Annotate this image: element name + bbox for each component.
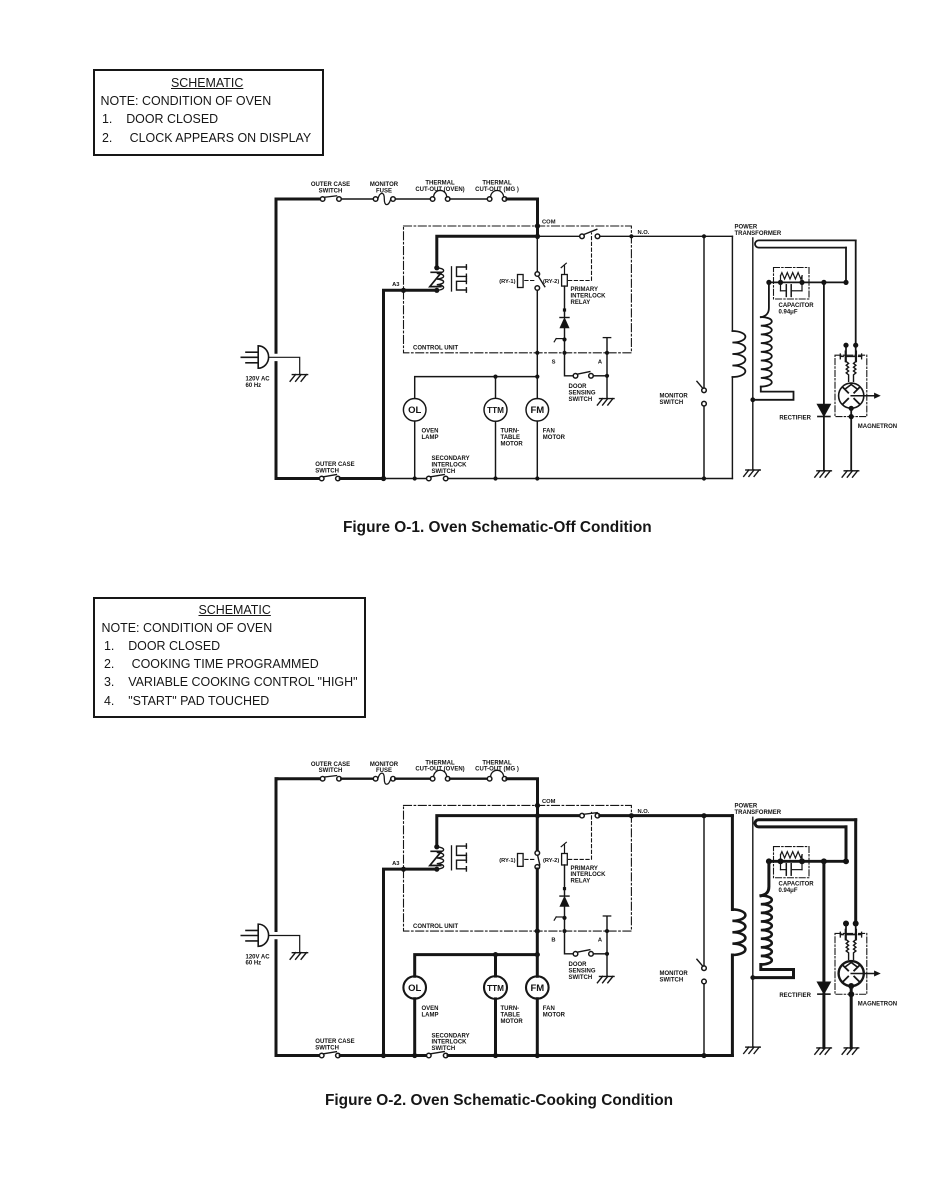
dashed link RY-2 coil to interlock switch [569, 233, 592, 281]
svg-text:LAMP: LAMP [422, 1013, 439, 1019]
wire filament lead right (to magnetron) [854, 820, 857, 922]
svg-text:DOOR: DOOR [569, 962, 588, 968]
label primary interlock relay [571, 287, 607, 306]
wire door sensing switch to node A column [593, 375, 607, 377]
svg-text:INTERLOCK: INTERLOCK [571, 872, 607, 878]
svg-text:B: B [551, 938, 555, 944]
magnetron filament terminals [840, 343, 861, 362]
label primary interlock relay [571, 866, 607, 885]
HV secondary return to ground lead [753, 387, 794, 400]
label power transformer [735, 804, 782, 816]
thermal cut-out (MG) [487, 197, 492, 202]
outer case switch (top) [320, 776, 341, 781]
control transformer T1 primary coil [434, 265, 443, 293]
svg-text:60 Hz: 60 Hz [246, 961, 262, 967]
label capacitor 0.94uF [779, 882, 815, 894]
wire S node to door sensing switch [565, 353, 574, 376]
wire S-B column to motor junction [536, 931, 539, 955]
node COM [535, 799, 556, 818]
svg-text:THERMAL: THERMAL [425, 760, 455, 766]
magnetron antenna output arrow [851, 393, 880, 398]
control unit dashed boundary box [404, 226, 632, 353]
oven lamp OL [403, 976, 426, 998]
svg-text:(RY-1): (RY-1) [499, 858, 515, 864]
fan motor FM [526, 955, 549, 999]
node dots on control unit boundary [535, 928, 609, 933]
wire COM to N.O. (primary interlock relay switch feed) [538, 814, 581, 817]
svg-text:A: A [598, 938, 603, 944]
schematic figure O-1 (off condition) [241, 181, 897, 482]
svg-text:MAGNETRON: MAGNETRON [858, 1002, 897, 1008]
svg-text:THERMAL: THERMAL [482, 181, 512, 187]
svg-text:MONITOR: MONITOR [660, 971, 689, 977]
bleed resistor inside capacitor [781, 852, 803, 862]
wire monitor switch column upper [703, 236, 705, 388]
label turntable motor [501, 429, 524, 448]
svg-text:SWITCH: SWITCH [315, 468, 339, 474]
connector pin at node S [554, 916, 566, 920]
node bottom rail at A3 column [381, 476, 386, 481]
AC plug 120V [241, 924, 268, 946]
secondary interlock switch [427, 1052, 449, 1058]
power transformer HV secondary coil [761, 317, 772, 387]
label monitor switch [660, 971, 689, 983]
svg-text:FAN: FAN [543, 429, 555, 435]
relay switch RY-2 contacts [535, 236, 545, 352]
wire bottom rail right segment [448, 1053, 732, 1058]
svg-text:TURN-: TURN- [501, 1006, 520, 1012]
label monitor fuse [370, 762, 399, 774]
wire rectifier to ground [823, 417, 825, 471]
wire rectifier to ground [822, 994, 825, 1048]
wire interlock switch to node N.O. [600, 814, 632, 817]
filament winding hairpin leads [755, 820, 856, 827]
rectifier diode [817, 982, 830, 994]
svg-text:LAMP: LAMP [422, 435, 439, 441]
svg-text:CAPACITOR: CAPACITOR [779, 882, 815, 888]
label outer case switch (bottom) [315, 462, 354, 474]
HV secondary return to ground lead [753, 965, 794, 978]
node COM [535, 220, 556, 239]
label fan motor [543, 1006, 566, 1018]
wire top rail segment 4 [450, 198, 487, 200]
svg-text:TABLE: TABLE [501, 435, 521, 441]
door sensing switch [573, 372, 593, 379]
ground at door sensing switch [597, 976, 614, 982]
svg-text:FUSE: FUSE [376, 768, 392, 774]
label thermal cut-out (MG) [475, 760, 519, 772]
svg-text:POWER: POWER [735, 804, 758, 810]
dashed link RY-1 to RY-2 switch [525, 858, 535, 860]
wire motor junction to TTM [494, 955, 497, 976]
wire COM to N.O. (primary interlock relay switch feed) [538, 235, 581, 237]
wire interlock switch to node N.O. [600, 235, 632, 237]
door sensing switch [573, 950, 593, 956]
motor supply wire [415, 375, 540, 399]
wire node A to ground [606, 376, 608, 399]
note box 1: schematic condition of oven (off) [93, 69, 324, 156]
svg-text:FM: FM [530, 405, 544, 416]
control transformer secondary windings [457, 844, 467, 871]
label thermal cut-out (oven) [415, 181, 464, 193]
power transformer primary return to rail [731, 377, 733, 479]
magnetron dashed box [835, 355, 867, 416]
wire motor junction to TTM [495, 377, 497, 399]
wire top rail segment 3 [395, 778, 430, 780]
ground at plug [290, 953, 308, 960]
wire OL to bottom rail [414, 421, 416, 478]
wire monitor switch to bottom rail [703, 406, 705, 479]
outer case switch (bottom) [319, 1052, 340, 1058]
wire left vertical from plug to top rail (thick) [276, 779, 277, 931]
svg-text:OL: OL [408, 405, 421, 416]
wire top rail segment 2 [341, 778, 373, 780]
wire A3 lead down to bottom rail (thick) [384, 869, 437, 1055]
primary interlock relay switch contacts [580, 229, 600, 238]
svg-text:60 Hz: 60 Hz [246, 383, 262, 389]
svg-text:MOTOR: MOTOR [543, 1013, 566, 1019]
wire bottom rail right segment [448, 476, 732, 480]
svg-text:SECONDARY: SECONDARY [432, 456, 470, 462]
note box 2: schematic condition of oven (cooking) [93, 597, 366, 718]
svg-text:RECTIFIER: RECTIFIER [779, 415, 811, 421]
label secondary interlock switch [432, 456, 470, 475]
svg-text:CONTROL UNIT: CONTROL UNIT [413, 924, 459, 930]
capacitor C1 0.94uF [781, 861, 803, 875]
control unit dashed boundary box [404, 805, 632, 931]
svg-text:SWITCH: SWITCH [660, 978, 684, 984]
power transformer primary coil [732, 331, 745, 377]
AC plug 120V [241, 346, 268, 368]
wire left vertical lower (thick) [275, 363, 278, 479]
label 120V AC 60 Hz [246, 376, 271, 389]
monitor switch [697, 959, 706, 983]
thermal cut-out (oven) [430, 776, 435, 781]
power transformer secondary ground lead [750, 238, 755, 470]
svg-text:0.94μF: 0.94μF [779, 888, 798, 894]
svg-text:OVEN: OVEN [422, 1006, 439, 1012]
svg-text:SWITCH: SWITCH [315, 1046, 339, 1052]
label thermal cut-out (MG) [475, 181, 519, 193]
monitor fuse [373, 776, 378, 781]
svg-text:CUT-OUT (MG ): CUT-OUT (MG ) [475, 187, 519, 193]
oven lamp OL [403, 399, 426, 422]
wire diode to connector node [564, 906, 566, 931]
label capacitor 0.94uF [779, 303, 815, 315]
wire bottom rail left segment (thick) [276, 477, 319, 480]
label secondary interlock switch [432, 1033, 470, 1052]
control transformer core [451, 267, 453, 291]
wire S node to door sensing switch [565, 931, 574, 954]
svg-text:MAGNETRON: MAGNETRON [858, 424, 897, 430]
wire door sensing switch to node A column [593, 953, 607, 955]
svg-text:RELAY: RELAY [571, 300, 591, 306]
control transformer secondary windings [457, 265, 467, 292]
wire top rail segment 2 [341, 198, 373, 200]
svg-text:A3: A3 [392, 861, 399, 867]
svg-text:OL: OL [408, 983, 421, 994]
svg-text:120V AC: 120V AC [246, 954, 271, 960]
svg-text:(RY-1): (RY-1) [499, 279, 515, 285]
magnetron filament heater coils [846, 362, 856, 382]
svg-text:CUT-OUT (OVEN): CUT-OUT (OVEN) [415, 767, 464, 773]
svg-text:A: A [598, 360, 603, 366]
wire bottom rail to A3 node (thick) [340, 477, 383, 480]
svg-text:TTM: TTM [487, 406, 504, 415]
turntable motor TTM [484, 398, 507, 421]
svg-text:INTERLOCK: INTERLOCK [432, 1040, 468, 1046]
magnetron dashed box [835, 933, 867, 994]
svg-text:DOOR: DOOR [569, 384, 588, 390]
svg-text:TRANSFORMER: TRANSFORMER [735, 231, 782, 237]
label oven lamp [422, 429, 439, 441]
svg-text:0.94μF: 0.94μF [779, 309, 798, 315]
rectifier diode [817, 404, 830, 416]
svg-text:MONITOR: MONITOR [660, 393, 689, 399]
label door sensing switch [569, 384, 596, 403]
wire top rail right segment to COM corner [507, 779, 538, 817]
svg-text:RELAY: RELAY [571, 879, 591, 885]
svg-text:SWITCH: SWITCH [569, 975, 593, 981]
svg-text:SECONDARY: SECONDARY [432, 1033, 470, 1039]
diode D1 in relay circuit [560, 896, 569, 906]
wire COM to control transformer primary (thick) [437, 816, 538, 846]
wire N.O. node to monitor switch column and transformer [631, 813, 732, 818]
capacitor dashed box [774, 268, 810, 300]
wire filament lead right (to magnetron) [855, 240, 857, 343]
wire filament lead left (through capacitor node) [845, 248, 847, 283]
svg-text:MONITOR: MONITOR [370, 762, 399, 768]
svg-text:MOTOR: MOTOR [501, 442, 524, 448]
wire FM to bottom rail [536, 421, 538, 478]
svg-text:COM: COM [542, 799, 556, 805]
svg-text:SWITCH: SWITCH [319, 768, 343, 774]
power transformer primary coil [732, 909, 745, 955]
svg-text:PRIMARY: PRIMARY [571, 866, 598, 872]
svg-text:CAPACITOR: CAPACITOR [779, 303, 815, 309]
svg-text:SWITCH: SWITCH [319, 188, 343, 194]
svg-text:MONITOR: MONITOR [370, 182, 399, 188]
motor supply wire [415, 952, 540, 976]
label oven lamp [422, 1006, 439, 1018]
relay coil RY-2 (primary interlock relay) [561, 842, 567, 865]
ground at rectifier [815, 471, 832, 477]
ground at rectifier [815, 1048, 832, 1054]
power transformer primary lead [731, 236, 733, 331]
node A3 [392, 861, 406, 872]
label 120V AC 60 Hz [246, 954, 271, 966]
wire plug to chassis ground [270, 357, 300, 374]
connector pin at node S [554, 337, 566, 341]
monitor switch [697, 381, 706, 406]
svg-text:OUTER CASE: OUTER CASE [311, 762, 350, 768]
wire bottom rail segment to secondary interlock switch [384, 1053, 427, 1058]
power transformer HV secondary coil [761, 896, 772, 965]
power transformer secondary ground lead [750, 817, 755, 1047]
node A column with terminal [603, 916, 610, 956]
svg-text:CUT-OUT (OVEN): CUT-OUT (OVEN) [415, 187, 464, 193]
svg-text:CUT-OUT (MG ): CUT-OUT (MG ) [475, 767, 519, 773]
svg-text:S: S [552, 360, 556, 366]
wire bottom rail to A3 node (thick) [340, 1054, 383, 1057]
wire top rail right segment to COM corner [507, 199, 538, 237]
outer case switch (top) [320, 196, 341, 202]
ground at magnetron [842, 471, 859, 477]
magnetron filament heater coils [846, 940, 856, 960]
dashed link RY-1 to RY-2 switch [525, 280, 535, 282]
wire OL to bottom rail [413, 999, 416, 1056]
label monitor switch [660, 393, 689, 406]
wire RY-2 coil to diode [563, 286, 565, 317]
wire left vertical lower (thick) [275, 941, 278, 1056]
wire top rail left segment [276, 777, 320, 780]
svg-text:SWITCH: SWITCH [660, 400, 684, 406]
node bottom rail at A3 column [381, 1053, 386, 1058]
relay coil RY-1 [499, 853, 523, 866]
node N.O. [629, 809, 650, 818]
label monitor fuse [370, 182, 399, 194]
node N.O. [629, 230, 650, 239]
svg-text:SENSING: SENSING [569, 391, 596, 397]
relay coil RY-1 [499, 275, 523, 288]
magnetron antenna output arrow [851, 971, 880, 976]
wire top rail segment 3 [395, 198, 430, 200]
label door sensing switch [569, 962, 596, 981]
svg-text:FAN: FAN [543, 1006, 555, 1012]
svg-text:OUTER CASE: OUTER CASE [311, 182, 350, 188]
wire RY-2 coil to diode [563, 865, 565, 896]
svg-text:TABLE: TABLE [501, 1013, 521, 1019]
svg-text:TURN-: TURN- [501, 429, 520, 435]
power transformer HV secondary lead [761, 861, 769, 895]
primary interlock relay switch contacts [580, 813, 600, 818]
svg-text:SWITCH: SWITCH [432, 469, 456, 475]
diode D1 in relay circuit [560, 318, 569, 328]
svg-text:POWER: POWER [735, 224, 758, 230]
svg-text:RECTIFIER: RECTIFIER [779, 993, 811, 999]
svg-text:SENSING: SENSING [569, 968, 596, 974]
varistor Z mark on control transformer [430, 851, 442, 865]
rectifier column wire [823, 282, 825, 404]
svg-text:THERMAL: THERMAL [482, 760, 512, 766]
magnetron filament terminals [840, 921, 861, 940]
svg-text:OUTER CASE: OUTER CASE [315, 1039, 354, 1045]
bleed resistor inside capacitor [781, 273, 803, 283]
wire plug to chassis ground [270, 936, 300, 953]
label outer case switch (bottom) [315, 1039, 354, 1051]
wire S-B column to motor junction [536, 353, 538, 377]
caption figure O-2 [325, 1092, 673, 1110]
magnetron tube V1 [839, 961, 864, 986]
svg-text:INTERLOCK: INTERLOCK [571, 293, 607, 299]
magnetron cathode lead to ground [849, 406, 854, 471]
caption figure O-1 [343, 519, 652, 537]
monitor fuse [373, 197, 378, 202]
control transformer core [451, 846, 453, 870]
ground at power transformer [744, 1047, 761, 1053]
svg-text:FM: FM [530, 983, 544, 994]
node A column with terminal [603, 338, 610, 378]
svg-text:OUTER CASE: OUTER CASE [315, 462, 354, 468]
thermal cut-out (oven) [430, 197, 435, 202]
svg-text:COM: COM [542, 220, 556, 226]
schematic figure O-2 (cooking condition) [241, 760, 897, 1058]
svg-text:N.O.: N.O. [638, 230, 650, 236]
turntable motor TTM [484, 976, 507, 999]
fan motor FM [526, 377, 549, 422]
wire diode to connector node [564, 328, 566, 353]
label outer case switch (top) [311, 182, 350, 194]
power transformer HV secondary lead [761, 282, 769, 317]
wire bottom rail left segment (thick) [276, 1054, 319, 1057]
svg-text:PRIMARY: PRIMARY [571, 287, 598, 293]
varistor Z mark on control transformer [430, 272, 442, 286]
svg-text:FUSE: FUSE [376, 188, 392, 194]
high voltage wire from secondary to capacitor [766, 280, 848, 285]
wire left vertical from plug to top rail (thick) [276, 199, 277, 352]
control transformer T1 primary coil [434, 844, 443, 871]
label outer case switch (top) [311, 762, 350, 774]
wire TTM to bottom rail [494, 999, 497, 1056]
svg-text:CONTROL UNIT: CONTROL UNIT [413, 346, 459, 352]
outer case switch (bottom) [319, 475, 340, 481]
thermal cut-out (MG) [487, 776, 492, 781]
label turntable motor [501, 1006, 524, 1025]
svg-text:MOTOR: MOTOR [501, 1019, 524, 1025]
capacitor dashed box [774, 847, 810, 878]
wire COM to control transformer primary (thick) [437, 236, 538, 266]
svg-text:SWITCH: SWITCH [569, 397, 593, 403]
label thermal cut-out (oven) [415, 760, 464, 772]
relay coil RY-2 (primary interlock relay) [561, 263, 567, 286]
node A3 [392, 282, 406, 293]
high voltage wire from secondary to capacitor [766, 858, 849, 864]
wire monitor switch column upper [703, 816, 705, 966]
ground at plug [290, 375, 308, 382]
svg-text:TRANSFORMER: TRANSFORMER [735, 810, 782, 816]
wire filament lead left (through capacitor node) [845, 827, 848, 861]
wire TTM to bottom rail [495, 421, 497, 478]
capacitor C1 0.94uF [781, 282, 803, 296]
filament winding hairpin leads [755, 240, 856, 247]
svg-text:OVEN: OVEN [422, 429, 439, 435]
svg-text:INTERLOCK: INTERLOCK [432, 463, 468, 469]
wire node A to ground [606, 954, 608, 976]
ground at door sensing switch [597, 399, 614, 405]
secondary interlock switch [427, 475, 449, 481]
wire top rail left segment [276, 198, 320, 201]
wire FM to bottom rail [536, 999, 539, 1056]
magnetron cathode lead to ground [848, 983, 854, 1048]
ground at magnetron [842, 1048, 859, 1054]
svg-text:A3: A3 [392, 282, 400, 288]
wire bottom rail segment to secondary interlock switch [384, 476, 427, 480]
magnetron tube V1 [839, 383, 864, 408]
svg-text:(RY-2): (RY-2) [543, 279, 559, 285]
wire monitor switch to bottom rail [703, 984, 705, 1056]
power transformer primary lead [731, 816, 734, 910]
svg-text:120V AC: 120V AC [246, 376, 271, 382]
power transformer primary return to rail [731, 955, 734, 1056]
wire top rail segment 4 [450, 778, 487, 780]
ground at power transformer [744, 470, 761, 476]
svg-text:MOTOR: MOTOR [543, 435, 566, 441]
rectifier column wire [822, 861, 825, 982]
label fan motor [543, 429, 566, 441]
node dots on control unit boundary [535, 351, 609, 355]
wire N.O. node to monitor switch column and transformer [631, 234, 732, 238]
wire A3 lead down to bottom rail (thick) [384, 290, 437, 478]
